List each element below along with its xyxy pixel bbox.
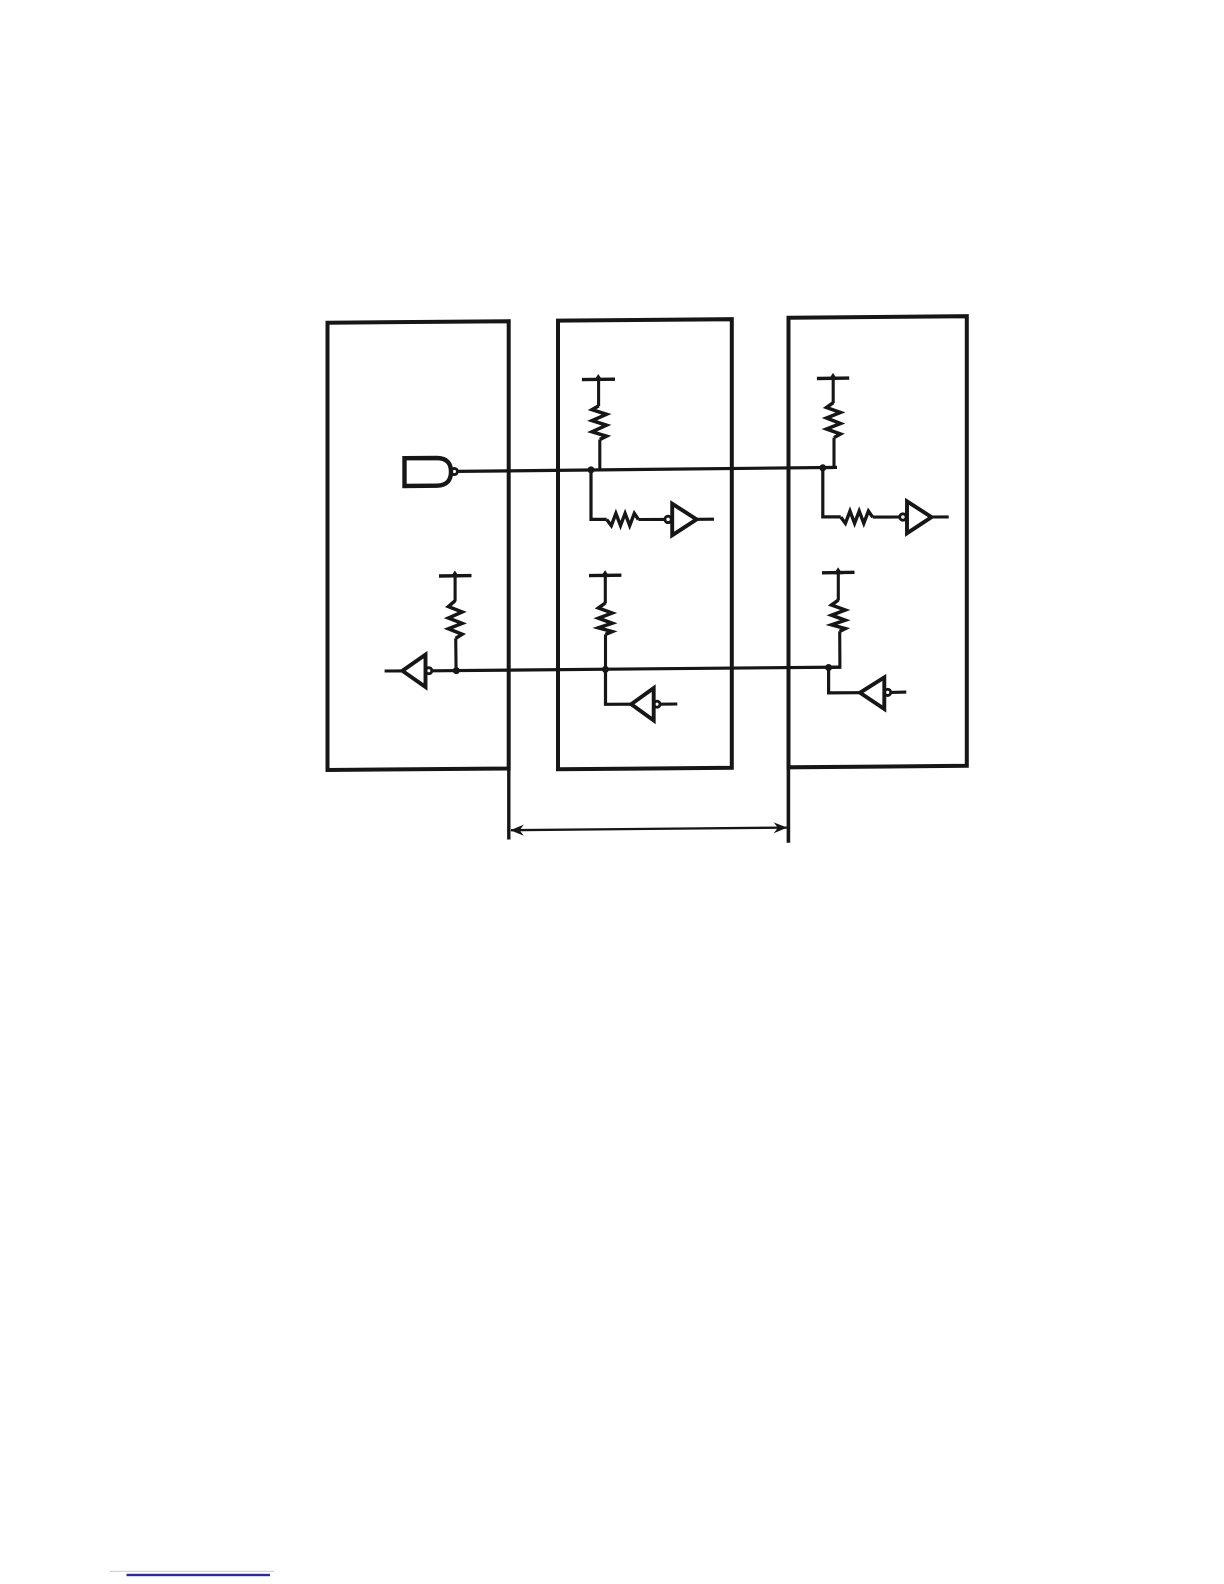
footer rule (blue) bbox=[110, 1571, 274, 1572]
U3 input bubble bbox=[665, 516, 671, 522]
pull-up resistor R2 (card 2 upper) bbox=[592, 406, 607, 440]
receiver inverter U2 (card 1) bbox=[402, 655, 425, 687]
wire: R5 to bus 1 end bbox=[823, 438, 834, 468]
receiver inverter U2 (card 1) input bubble bbox=[426, 668, 432, 674]
wire bus 2 (lower party line) bbox=[432, 667, 841, 671]
wire bus 1 (upper party line) bbox=[457, 467, 838, 471]
card 1 outline (left board) bbox=[328, 321, 509, 770]
extension line (card 3 left edge, dimension witness) bbox=[787, 767, 791, 843]
Vcc symbol (card 3 lower) bbox=[822, 571, 855, 575]
wire: Vcc to R2 bbox=[597, 380, 600, 407]
Vcc symbol (card 2 lower) bbox=[589, 574, 621, 578]
wire: U3 output stub bbox=[697, 518, 714, 521]
Vcc symbol (card 3 upper) bbox=[817, 376, 849, 380]
node: bus 1 junction on card 3 bbox=[819, 464, 826, 471]
wire: U5 output stub bbox=[932, 515, 949, 518]
pull-up resistor R4 (card 2 lower) bbox=[598, 603, 612, 634]
wire: Vcc to R4 bbox=[604, 576, 607, 604]
card 2 outline (middle board) bbox=[558, 319, 732, 769]
pull-up resistor R7 (card 3 lower) bbox=[832, 600, 846, 631]
driver inverter U6 (card 3) bbox=[860, 677, 884, 709]
wire: R4 to bus 2 bbox=[604, 634, 607, 669]
extension line (card 1 right edge, dimension witness) bbox=[507, 769, 510, 840]
wire: Vcc to R7 bbox=[837, 573, 840, 601]
wire: R1 to bus 2 bbox=[454, 638, 457, 670]
wire: R6 to receiver U5 bbox=[873, 515, 900, 518]
wire: junction drop to driver U4 bbox=[606, 669, 632, 704]
wire: U2 output stub bbox=[385, 669, 403, 672]
wire: U4 input stub bbox=[660, 702, 677, 705]
receiver buffer U5 (card 3) bbox=[907, 501, 932, 533]
U4 input bubble bbox=[654, 701, 660, 707]
wire: R3 to receiver U3 bbox=[638, 518, 664, 521]
wire: junction drop to R6 bbox=[823, 468, 841, 517]
pull-up resistor R5 (card 3 upper) bbox=[827, 403, 841, 438]
receiver buffer U3 (card 2) bbox=[672, 504, 696, 536]
series resistor R3 (card 2) bbox=[607, 513, 639, 525]
wire: junction drop to R3 bbox=[591, 470, 607, 520]
wire: R2 to bus 1 bbox=[598, 440, 601, 471]
pull-up resistor R1 (card 1 lower) bbox=[448, 601, 462, 639]
wire: junction drop to driver U6 bbox=[829, 668, 860, 693]
Vcc symbol (card 1 lower) bbox=[439, 574, 472, 578]
card 3 outline (right board) bbox=[789, 316, 967, 767]
node: bus 1 junction on card 2 bbox=[588, 466, 595, 473]
node: bus 2 junction on card 2 bbox=[602, 666, 609, 673]
U1 output bubble bbox=[451, 468, 457, 474]
driver gate U1 (card 1, open-collector bus driver) bbox=[405, 458, 452, 486]
node: bus 2 junction on card 3 bbox=[825, 664, 832, 671]
wire: U6 input stub bbox=[891, 691, 907, 694]
wire: Vcc to R5 bbox=[832, 378, 835, 403]
series resistor R6 (card 3) bbox=[841, 511, 873, 523]
U6 input bubble bbox=[885, 689, 891, 695]
Vcc symbol (card 2 upper) bbox=[582, 378, 615, 382]
node: bus 2 junction on card 1 bbox=[453, 667, 460, 674]
U5 input bubble bbox=[900, 514, 906, 520]
wire: R7 to bus 2 end bbox=[829, 631, 840, 667]
wire: Vcc to R1 bbox=[454, 576, 457, 601]
dimension arrow (bus length, double headed) bbox=[511, 828, 787, 831]
driver inverter U4 (card 2) bbox=[631, 688, 654, 720]
